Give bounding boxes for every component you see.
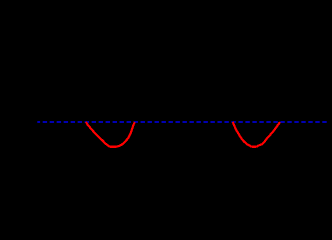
curve segment 2 (right red dip)	[233, 122, 280, 147]
curve segment 1 (left red dip)	[86, 122, 135, 147]
dashed threshold line	[37, 121, 327, 123]
